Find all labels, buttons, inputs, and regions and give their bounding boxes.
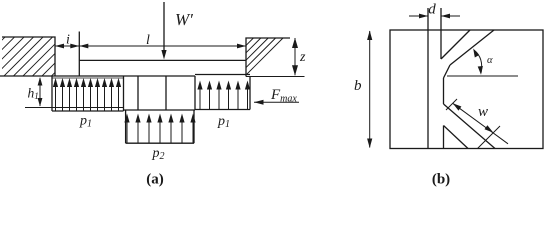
svg-text:w: w xyxy=(478,104,488,120)
svg-text:b: b xyxy=(354,78,362,94)
svg-text:(a): (a) xyxy=(146,172,164,188)
svg-text:p1: p1 xyxy=(79,114,92,130)
svg-text:h1: h1 xyxy=(28,86,39,102)
svg-text:W′: W′ xyxy=(175,10,193,29)
svg-text:p1: p1 xyxy=(217,114,230,130)
svg-text:z: z xyxy=(299,50,306,65)
svg-text:α: α xyxy=(487,55,493,66)
svg-text:Fmax: Fmax xyxy=(270,87,297,105)
svg-text:(b): (b) xyxy=(432,172,450,188)
svg-text:l: l xyxy=(146,33,150,48)
svg-text:p2: p2 xyxy=(152,146,165,162)
svg-text:d: d xyxy=(428,2,436,18)
svg-text:i: i xyxy=(66,33,70,48)
